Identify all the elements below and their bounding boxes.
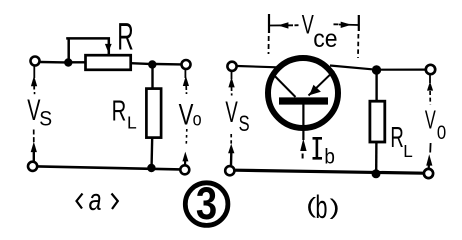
bottom wire (b): [236, 170, 424, 173]
wire: node B down to RL box (a): [151, 66, 153, 89]
svg-text:a: a: [89, 182, 102, 217]
svg-text:V: V: [425, 105, 436, 135]
terminal BL (a): [28, 162, 37, 171]
Vs voltage arrow upper segment (a): [33, 67, 35, 79]
Vs voltage arrow upper segment (b): [231, 72, 233, 80]
node D junction dot (b): [372, 65, 381, 74]
wire: node D down to RL box (b): [375, 72, 377, 102]
resistor RL box (b): [370, 101, 385, 142]
Vce dimension left tick: [268, 14, 270, 33]
svg-text:L: L: [127, 113, 137, 133]
Vo voltage arrow upper segment (a): [184, 70, 186, 78]
terminal TR (a): [182, 60, 191, 69]
svg-text:R: R: [112, 95, 127, 127]
Vo voltage arrow lower segment (a): [185, 129, 188, 147]
terminal TL (a): [31, 57, 40, 66]
wire: RL box to node C (a): [150, 138, 153, 166]
svg-text:0: 0: [437, 122, 446, 143]
wire: node A to R box (a): [70, 61, 86, 63]
node A junction dot (a): [64, 58, 72, 66]
node E junction dot (b): [372, 169, 381, 178]
Vce dimension right tick: [358, 15, 360, 31]
wire: TL terminal to node A (a): [41, 61, 66, 64]
transistor Q1 body circle: [268, 58, 338, 128]
resistor R box (a): [86, 55, 131, 70]
Ib current arrowhead (pointing up into base): [300, 139, 306, 151]
node C junction dot (a): [147, 164, 155, 172]
Vce dimension right arrow: [334, 23, 339, 25]
svg-text:b: b: [324, 146, 335, 169]
figure number 3 badge circle: [185, 183, 228, 226]
label (a) : left angle bracket: [77, 194, 83, 209]
transistor Q1 emitter lead: [272, 74, 295, 98]
terminal BR (b): [424, 169, 433, 178]
Ib arrow tail dash: [302, 154, 304, 159]
svg-text:): ): [330, 194, 340, 219]
svg-text:L: L: [403, 141, 413, 162]
svg-text:ce: ce: [313, 25, 337, 53]
Vce dimension left arrow: [269, 24, 293, 26]
svg-text:V: V: [225, 96, 238, 130]
wire: transistor collector side to node D (b): [330, 66, 372, 70]
wire: node D to TR terminal (b): [381, 68, 426, 70]
svg-text:S: S: [39, 108, 52, 131]
Vs voltage arrow lower segment (b): [230, 134, 232, 146]
svg-text:3: 3: [196, 178, 217, 229]
wire: R box to node B (a): [131, 62, 149, 65]
Vo voltage arrow lower segment (b): [429, 143, 431, 153]
wire: RL box to node E (b): [375, 142, 378, 171]
wire: node B to TR terminal (a): [156, 63, 182, 66]
Vo voltage arrow upper segment (b): [429, 75, 431, 83]
svg-text:S: S: [239, 112, 250, 137]
svg-text:R: R: [117, 16, 133, 58]
svg-text:V: V: [179, 97, 194, 131]
wire: TL terminal to transistor emitter side (b): [238, 66, 278, 67]
svg-text:b: b: [315, 189, 327, 225]
svg-text:o: o: [193, 108, 202, 130]
node B junction dot (a): [148, 60, 156, 68]
bottom wire (a): [38, 166, 180, 169]
transistor Q1 collector arrowhead: [309, 85, 321, 96]
label (a) : right angle bracket: [112, 194, 118, 210]
rheostat wiper arrowhead (a): [105, 44, 112, 52]
transistor Q1 collector lead: [309, 71, 335, 96]
terminal BL (b): [225, 166, 234, 175]
transistor Q1 base bar: [279, 97, 328, 104]
svg-text:R: R: [390, 122, 403, 154]
terminal BR (a): [180, 165, 189, 174]
terminal TR (b): [426, 65, 435, 74]
resistor RL box (a): [146, 89, 161, 138]
rheostat R wiper arm (a): [66, 38, 109, 60]
Vs voltage arrow lower segment (a): [33, 130, 35, 144]
label Ib: [313, 138, 323, 158]
transistor Q1 base stub below circle: [302, 104, 304, 140]
terminal TL (b): [227, 62, 236, 71]
